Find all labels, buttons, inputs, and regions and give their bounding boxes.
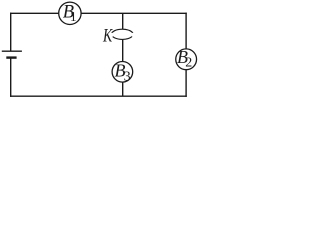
wire top rail middle segment: [81, 12, 187, 14]
wire left side lower: [10, 58, 12, 97]
svg-text:3: 3: [124, 69, 131, 84]
svg-text:1: 1: [70, 9, 77, 24]
battery long plate (positive): [2, 50, 22, 52]
battery short thick plate (negative): [6, 56, 16, 58]
lamp B3 circle: [112, 62, 133, 83]
wire right side upper: [185, 13, 187, 50]
wire middle branch between switch and B3: [122, 40, 124, 62]
wire right side lower: [185, 70, 187, 97]
wire middle branch top: [122, 13, 124, 29]
wire left side upper: [10, 13, 12, 51]
lamp B2 circle: [176, 49, 197, 70]
switch K left contact gap: [110, 33, 113, 37]
wire top rail left segment: [10, 12, 59, 14]
switch K ellipse body: [112, 29, 134, 39]
wire middle branch bottom: [122, 82, 124, 96]
lamp B1 circle: [59, 2, 81, 24]
svg-text:K: K: [102, 24, 113, 45]
switch K right contact gap: [132, 33, 135, 37]
wire bottom rail: [10, 95, 187, 97]
svg-text:2: 2: [185, 56, 192, 71]
